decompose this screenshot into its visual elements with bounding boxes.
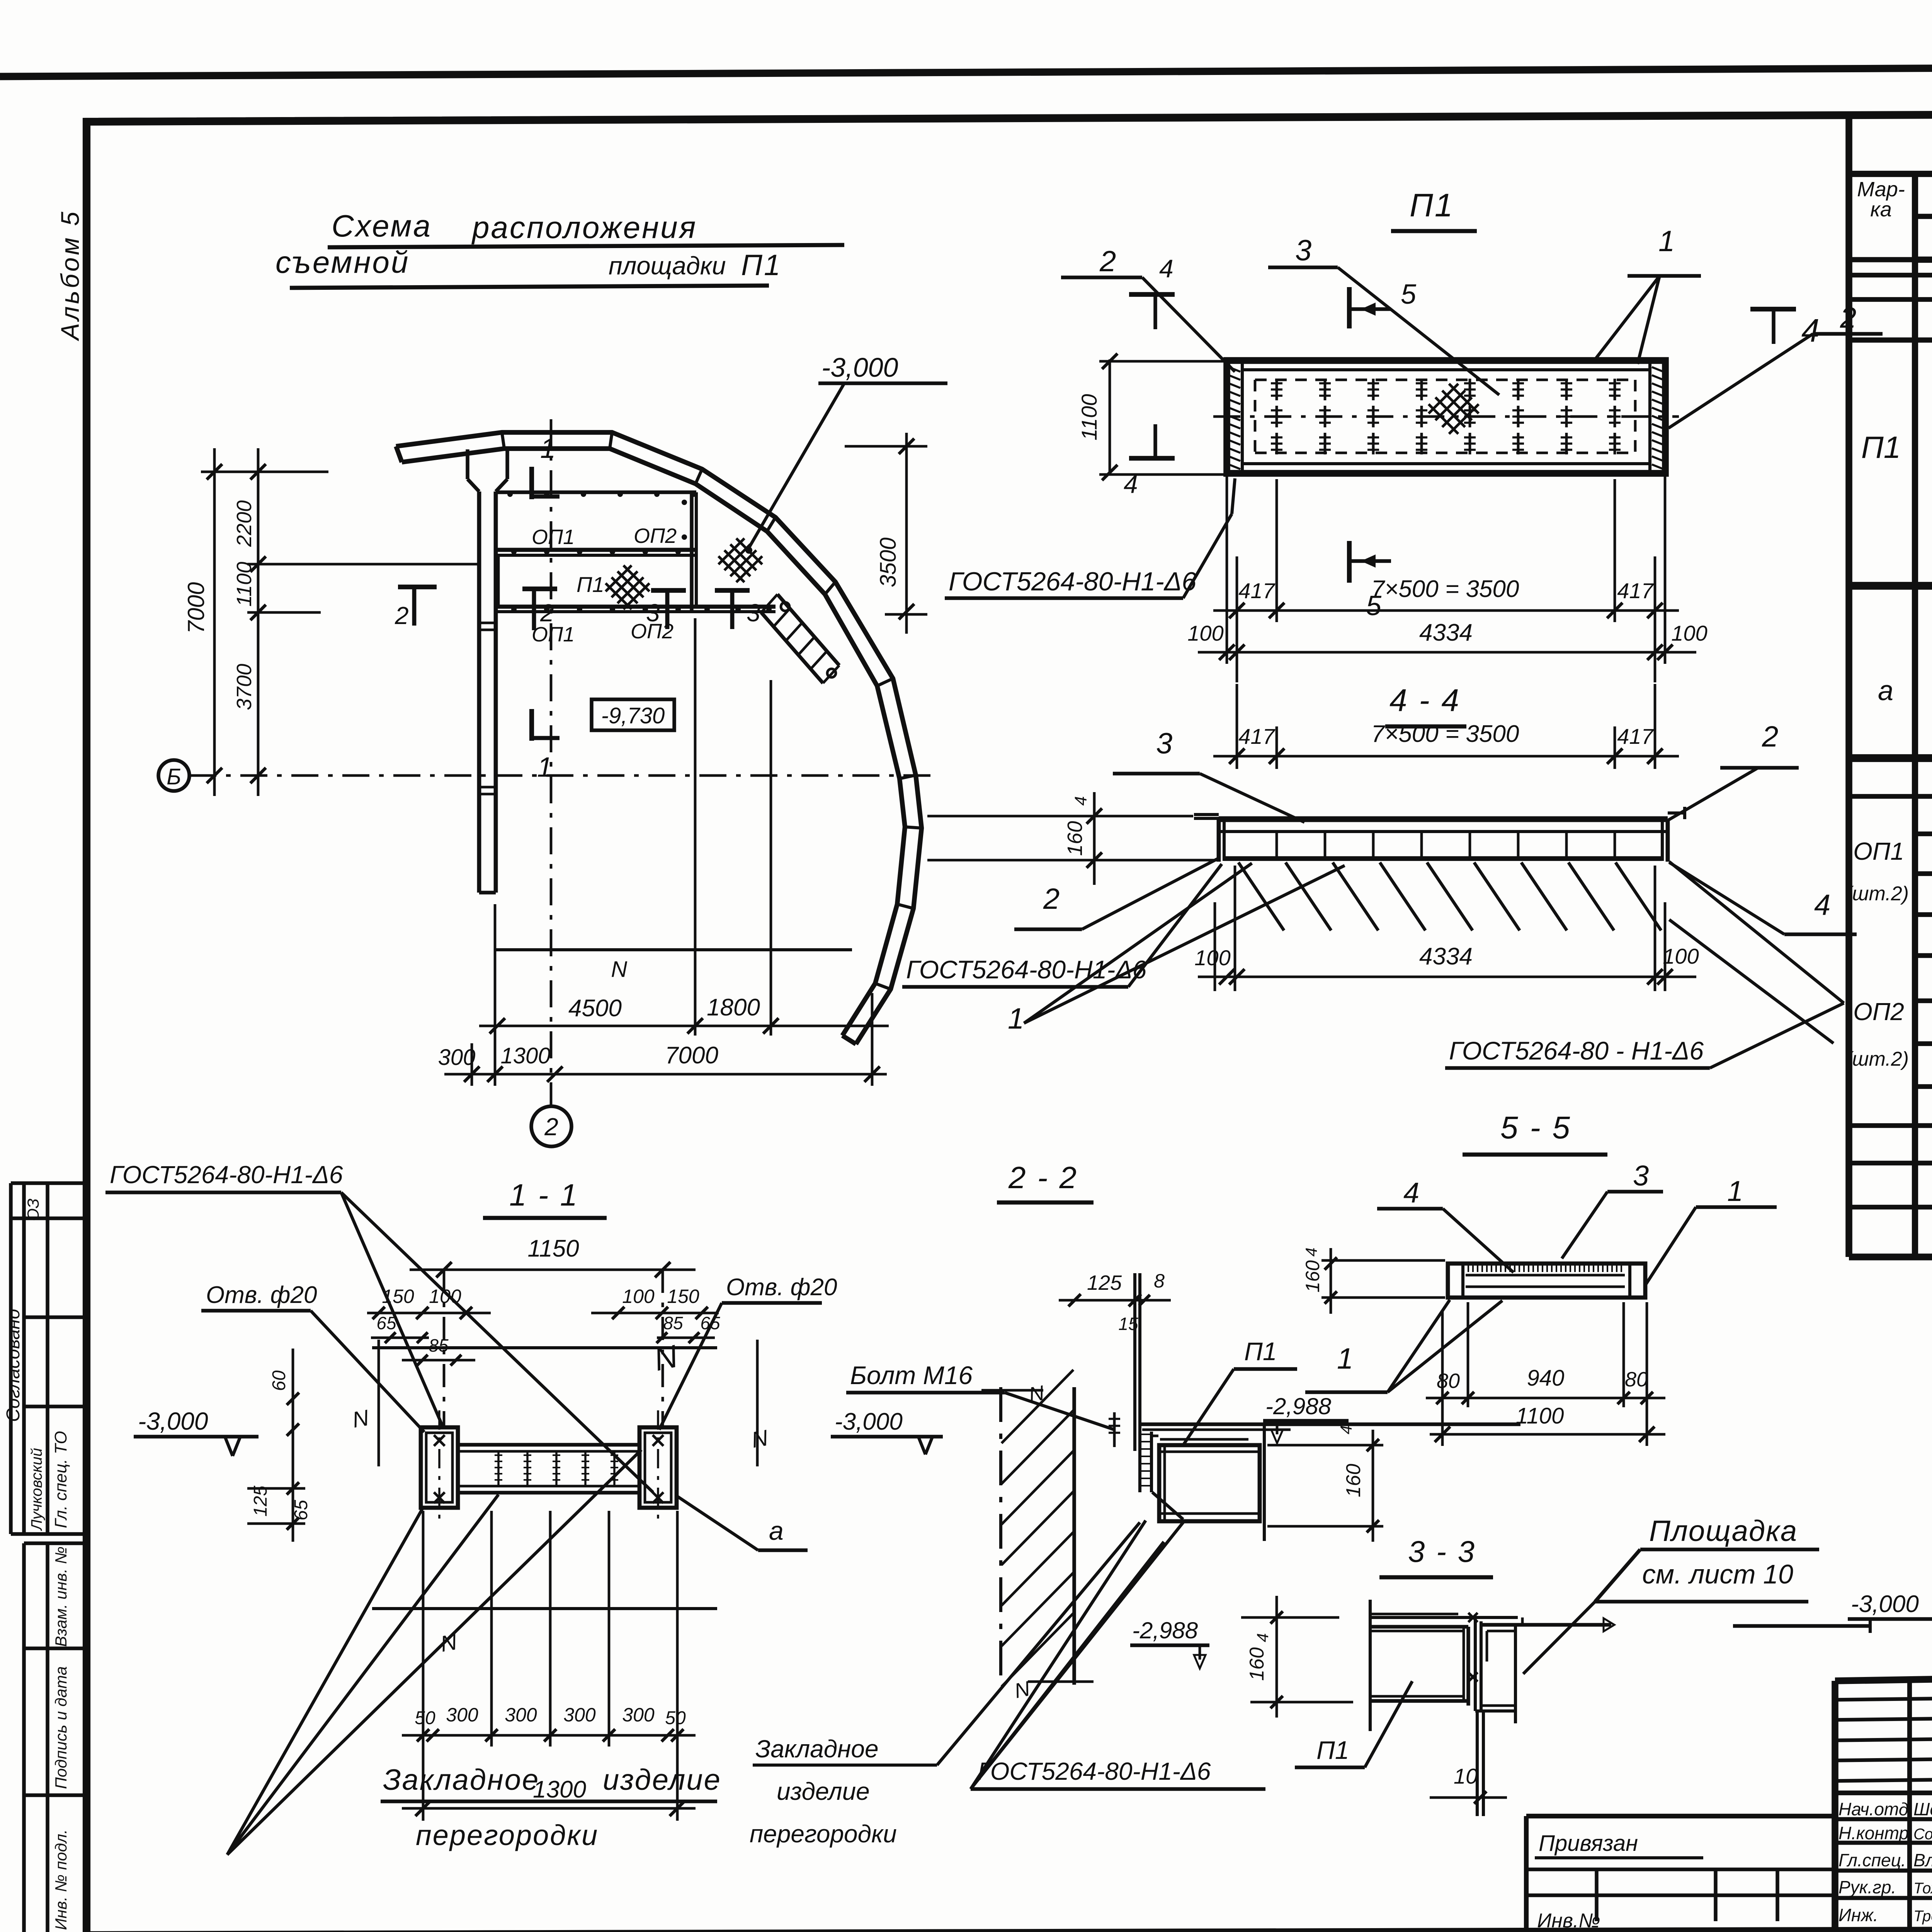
svg-text:см. лист 10: см. лист 10 <box>1642 1559 1793 1589</box>
svg-text:100: 100 <box>622 1286 655 1307</box>
svg-text:а: а <box>769 1516 784 1546</box>
svg-text:Инж.: Инж. <box>1838 1905 1878 1925</box>
svg-text:ГОСТ5264-80 - Н1-Δ6: ГОСТ5264-80 - Н1-Δ6 <box>1449 1036 1704 1065</box>
svg-text:ОП1: ОП1 <box>532 526 575 549</box>
svg-text:(шт.2): (шт.2) <box>1845 1048 1909 1070</box>
svg-text:3 - 3: 3 - 3 <box>1408 1534 1476 1568</box>
svg-text:1: 1 <box>540 433 556 464</box>
svg-text:100: 100 <box>1671 621 1707 645</box>
svg-text:3700: 3700 <box>233 664 256 710</box>
svg-text:4: 4 <box>1302 1248 1320 1257</box>
svg-text:Инв.№: Инв.№ <box>1537 1910 1600 1932</box>
svg-text:Гл. спец. ТО: Гл. спец. ТО <box>51 1431 70 1528</box>
svg-text:Сокольская: Сокольская <box>1913 1826 1932 1843</box>
svg-text:ОЗ: ОЗ <box>24 1199 42 1221</box>
svg-text:Нач.отд: Нач.отд <box>1838 1799 1908 1819</box>
svg-text:ОП2: ОП2 <box>1853 998 1904 1026</box>
svg-text:Лучковский: Лучковский <box>28 1448 45 1531</box>
svg-text:Схема: Схема <box>332 209 432 243</box>
svg-text:П1: П1 <box>1861 430 1901 464</box>
svg-text:417: 417 <box>1617 724 1654 748</box>
svg-text:417: 417 <box>1238 724 1275 748</box>
svg-text:1100: 1100 <box>1516 1403 1564 1429</box>
svg-text:1: 1 <box>1337 1342 1353 1375</box>
svg-text:3: 3 <box>1156 727 1172 760</box>
svg-text:15: 15 <box>1118 1314 1138 1334</box>
svg-text:Взам. инв. №: Взам. инв. № <box>52 1546 70 1647</box>
svg-text:65: 65 <box>291 1500 311 1520</box>
svg-text:4: 4 <box>1253 1633 1272 1642</box>
svg-text:1800: 1800 <box>707 994 760 1021</box>
svg-text:Тохтамышева: Тохтамышева <box>1913 1880 1932 1897</box>
svg-text:5 - 5: 5 - 5 <box>1500 1110 1571 1145</box>
svg-text:417: 417 <box>1617 578 1654 603</box>
svg-text:100: 100 <box>1194 946 1230 970</box>
svg-text:2: 2 <box>1043 883 1060 915</box>
svg-text:85: 85 <box>663 1313 683 1333</box>
svg-text:10: 10 <box>1454 1764 1478 1788</box>
svg-text:Подпись и дата: Подпись и дата <box>52 1666 70 1789</box>
svg-text:-9,730: -9,730 <box>601 703 665 728</box>
svg-text:3: 3 <box>1633 1160 1649 1192</box>
svg-text:160: 160 <box>1063 821 1087 856</box>
svg-text:Отв. ф20: Отв. ф20 <box>726 1274 837 1301</box>
svg-text:85: 85 <box>429 1335 449 1355</box>
svg-text:Площадка: Площадка <box>1649 1515 1798 1548</box>
svg-text:100: 100 <box>1187 621 1223 645</box>
svg-text:перегородки: перегородки <box>416 1819 599 1851</box>
svg-text:ГОСТ5264-80-Н1-Δ6: ГОСТ5264-80-Н1-Δ6 <box>110 1161 343 1189</box>
svg-text:160: 160 <box>1246 1647 1268 1681</box>
svg-text:4: 4 <box>1337 1425 1355 1434</box>
svg-text:4334: 4334 <box>1419 619 1473 646</box>
svg-text:Отв. ф20: Отв. ф20 <box>206 1282 317 1308</box>
svg-text:расположения: расположения <box>471 210 697 245</box>
svg-text:4: 4 <box>1071 796 1090 806</box>
svg-text:Н.контр.: Н.контр. <box>1838 1823 1914 1843</box>
svg-text:П1: П1 <box>741 249 782 282</box>
svg-text:4: 4 <box>1801 312 1820 349</box>
svg-text:-3,000: -3,000 <box>1851 1591 1919 1617</box>
svg-text:Б: Б <box>167 764 181 789</box>
svg-text:ГОСТ5264-80-Н1-Δ6: ГОСТ5264-80-Н1-Δ6 <box>906 955 1147 984</box>
svg-text:ГОСТ5264-80-Н1-Δ6: ГОСТ5264-80-Н1-Δ6 <box>978 1757 1211 1785</box>
svg-text:65: 65 <box>376 1313 396 1333</box>
svg-text:300: 300 <box>622 1704 655 1726</box>
svg-text:2: 2 <box>1840 301 1856 334</box>
svg-text:300: 300 <box>505 1704 537 1726</box>
svg-text:7000: 7000 <box>665 1042 718 1069</box>
svg-text:7000: 7000 <box>183 582 209 634</box>
svg-text:Власенко: Власенко <box>1913 1850 1932 1870</box>
svg-text:ГОСТ5264-80-Н1-Δ6: ГОСТ5264-80-Н1-Δ6 <box>949 567 1196 596</box>
svg-text:125: 125 <box>1087 1271 1122 1294</box>
svg-text:перегородки: перегородки <box>750 1820 897 1848</box>
svg-text:3: 3 <box>747 599 760 627</box>
svg-text:4 - 4: 4 - 4 <box>1389 683 1461 718</box>
svg-text:(шт.2): (шт.2) <box>1845 883 1909 905</box>
svg-text:2: 2 <box>544 1113 558 1141</box>
svg-text:4334: 4334 <box>1419 943 1473 970</box>
svg-text:2: 2 <box>1099 245 1116 278</box>
svg-text:П1: П1 <box>1410 187 1454 223</box>
svg-text:а: а <box>1878 675 1893 706</box>
svg-text:ка: ка <box>1870 198 1892 221</box>
svg-text:4: 4 <box>1403 1177 1419 1209</box>
svg-text:П1: П1 <box>1316 1736 1349 1764</box>
svg-text:Инв. № подл.: Инв. № подл. <box>52 1829 70 1930</box>
svg-text:П1: П1 <box>577 572 604 597</box>
svg-text:1: 1 <box>1727 1175 1743 1207</box>
svg-text:80: 80 <box>1625 1368 1648 1391</box>
svg-text:5: 5 <box>1401 279 1417 310</box>
svg-text:Закладное: Закладное <box>755 1735 879 1763</box>
svg-text:Согласовано: Согласовано <box>3 1309 24 1422</box>
svg-text:7×500 = 3500: 7×500 = 3500 <box>1371 576 1519 602</box>
svg-text:1300: 1300 <box>500 1043 550 1068</box>
svg-text:-2,988: -2,988 <box>1265 1393 1332 1419</box>
svg-text:60: 60 <box>269 1370 289 1391</box>
svg-text:300: 300 <box>563 1704 596 1726</box>
svg-text:ОП1: ОП1 <box>1853 837 1904 865</box>
svg-text:1: 1 <box>1658 225 1675 258</box>
svg-text:ОП2: ОП2 <box>634 524 677 548</box>
svg-text:1150: 1150 <box>527 1235 579 1262</box>
svg-text:2200: 2200 <box>233 500 256 547</box>
svg-text:площадки: площадки <box>609 252 726 280</box>
svg-text:Болт М16: Болт М16 <box>850 1361 973 1389</box>
svg-text:50: 50 <box>665 1708 686 1728</box>
svg-text:изделие: изделие <box>603 1764 721 1796</box>
svg-text:-2,988: -2,988 <box>1132 1617 1198 1643</box>
svg-text:1100: 1100 <box>1077 394 1101 440</box>
svg-text:N: N <box>612 956 628 981</box>
svg-text:2: 2 <box>395 602 409 629</box>
svg-text:Гл.спец.: Гл.спец. <box>1838 1850 1906 1870</box>
svg-text:Третьякова: Третьякова <box>1913 1908 1932 1925</box>
svg-text:1100: 1100 <box>233 562 256 607</box>
svg-text:50: 50 <box>415 1708 435 1728</box>
svg-text:Рук.гр.: Рук.гр. <box>1838 1877 1896 1897</box>
svg-text:3: 3 <box>646 599 660 627</box>
svg-text:100: 100 <box>1663 944 1699 968</box>
svg-text:1300: 1300 <box>533 1776 586 1803</box>
svg-text:150: 150 <box>667 1286 699 1307</box>
svg-text:4: 4 <box>1159 254 1173 283</box>
svg-text:2 - 2: 2 - 2 <box>1008 1160 1078 1195</box>
svg-text:417: 417 <box>1238 578 1275 603</box>
svg-text:300: 300 <box>438 1045 476 1070</box>
svg-text:4: 4 <box>1814 889 1830 922</box>
svg-text:940: 940 <box>1527 1366 1565 1391</box>
svg-text:8: 8 <box>1154 1270 1165 1292</box>
svg-text:съемной: съемной <box>276 245 410 279</box>
svg-text:150: 150 <box>382 1286 414 1307</box>
svg-text:Альбом 5: Альбом 5 <box>56 209 84 342</box>
svg-text:Шейко: Шейко <box>1913 1799 1932 1819</box>
svg-text:-3,000: -3,000 <box>138 1407 208 1435</box>
svg-text:3: 3 <box>1295 234 1311 267</box>
svg-text:-3,000: -3,000 <box>835 1408 903 1435</box>
svg-text:Привязан: Привязан <box>1539 1831 1638 1856</box>
svg-text:изделие: изделие <box>777 1777 870 1805</box>
svg-text:Закладное: Закладное <box>383 1764 539 1796</box>
svg-text:-3,000: -3,000 <box>821 352 898 383</box>
svg-text:80: 80 <box>1437 1369 1460 1393</box>
svg-text:300: 300 <box>446 1704 478 1726</box>
svg-text:160: 160 <box>1342 1464 1365 1497</box>
svg-text:4500: 4500 <box>568 995 622 1022</box>
svg-text:Мар-: Мар- <box>1857 178 1905 201</box>
svg-text:160: 160 <box>1302 1260 1323 1293</box>
svg-text:65: 65 <box>700 1313 720 1333</box>
svg-text:125: 125 <box>250 1486 271 1517</box>
svg-text:100: 100 <box>429 1286 461 1307</box>
svg-text:7×500 = 3500: 7×500 = 3500 <box>1371 721 1519 747</box>
svg-text:2: 2 <box>1762 720 1778 753</box>
svg-text:1 - 1: 1 - 1 <box>509 1178 579 1212</box>
svg-text:П1: П1 <box>1244 1337 1277 1366</box>
svg-text:1: 1 <box>1008 1002 1024 1035</box>
svg-text:3500: 3500 <box>876 537 901 587</box>
